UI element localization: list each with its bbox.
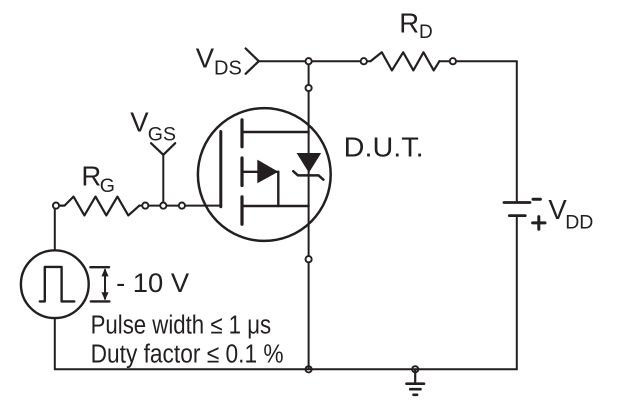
probe VGS Y symbol [151, 143, 175, 155]
resistor RG [56, 197, 139, 216]
svg-text:- 10 V: - 10 V [116, 267, 190, 298]
transistor drain connection [242, 131, 309, 133]
wire right branch down to battery [516, 61, 518, 201]
node RD left terminal [361, 58, 367, 64]
label VDS [196, 43, 242, 80]
node junction ground on bottom rail [412, 366, 418, 372]
body diode D1 cathode bar with zener hooks [293, 171, 323, 180]
transistor source connection [242, 205, 309, 207]
label VDD [548, 194, 593, 233]
wire gate segment RG to gate [139, 205, 221, 207]
resistor RD [371, 52, 440, 70]
svg-text:DS: DS [214, 57, 242, 79]
svg-text:R: R [81, 161, 101, 192]
node gate wire terminal 2 [179, 203, 185, 209]
node gate wire terminal 1 [142, 203, 148, 209]
label RD [399, 8, 432, 43]
svg-text:D: D [419, 22, 433, 43]
transistor channel dash 3 [240, 197, 243, 224]
node RG left terminal [53, 203, 59, 209]
pulse generator circle [21, 250, 89, 318]
transistor channel dash 2 [240, 158, 243, 186]
node top rail drain junction [306, 58, 312, 64]
battery VDD top bar [504, 201, 530, 204]
label VGS [130, 106, 176, 145]
battery VDD bottom bar [509, 214, 525, 217]
svg-text:Pulse width ≤ 1 μs: Pulse width ≤ 1 μs [91, 312, 272, 340]
node source terminal of DUT [306, 256, 312, 262]
node gate wire junction VGS [160, 203, 166, 209]
battery plus sign [533, 221, 545, 224]
transistor body line with arrow [242, 171, 278, 173]
node RD right terminal [450, 58, 456, 64]
wire bottom rail [55, 368, 517, 370]
svg-text:V: V [130, 106, 149, 137]
wire top rail from VDS probe to right corner [259, 60, 371, 62]
wire pulse generator to RG [54, 206, 56, 251]
probe VDS chevron [246, 48, 259, 73]
svg-text:V: V [196, 43, 215, 74]
dimension arrow for pulse amplitude [90, 266, 109, 268]
svg-text:Duty factor ≤ 0.1 %: Duty factor ≤ 0.1 % [91, 340, 284, 368]
transistor channel dash 1 [240, 120, 243, 147]
node drain terminal of DUT [306, 85, 312, 91]
transistor gate electrode bar [219, 132, 222, 207]
body diode D1 triangle [297, 153, 322, 173]
svg-text:D.U.T.: D.U.T. [344, 131, 424, 162]
ground symbol [414, 369, 416, 383]
svg-text:G: G [100, 175, 115, 197]
node junction at source and bottom rail [306, 366, 312, 372]
battery minus sign [533, 198, 540, 201]
wire battery to bottom rail [516, 217, 518, 369]
pulse generator square wave symbol [40, 267, 75, 302]
transistor U1 D.U.T. envelope circle [198, 108, 331, 241]
wire drain/source vertical line [308, 61, 310, 369]
label RG [81, 161, 115, 198]
svg-text:DD: DD [565, 211, 593, 233]
wire pulse generator to bottom rail [54, 318, 56, 369]
svg-text:GS: GS [148, 123, 176, 145]
svg-text:R: R [399, 8, 419, 39]
